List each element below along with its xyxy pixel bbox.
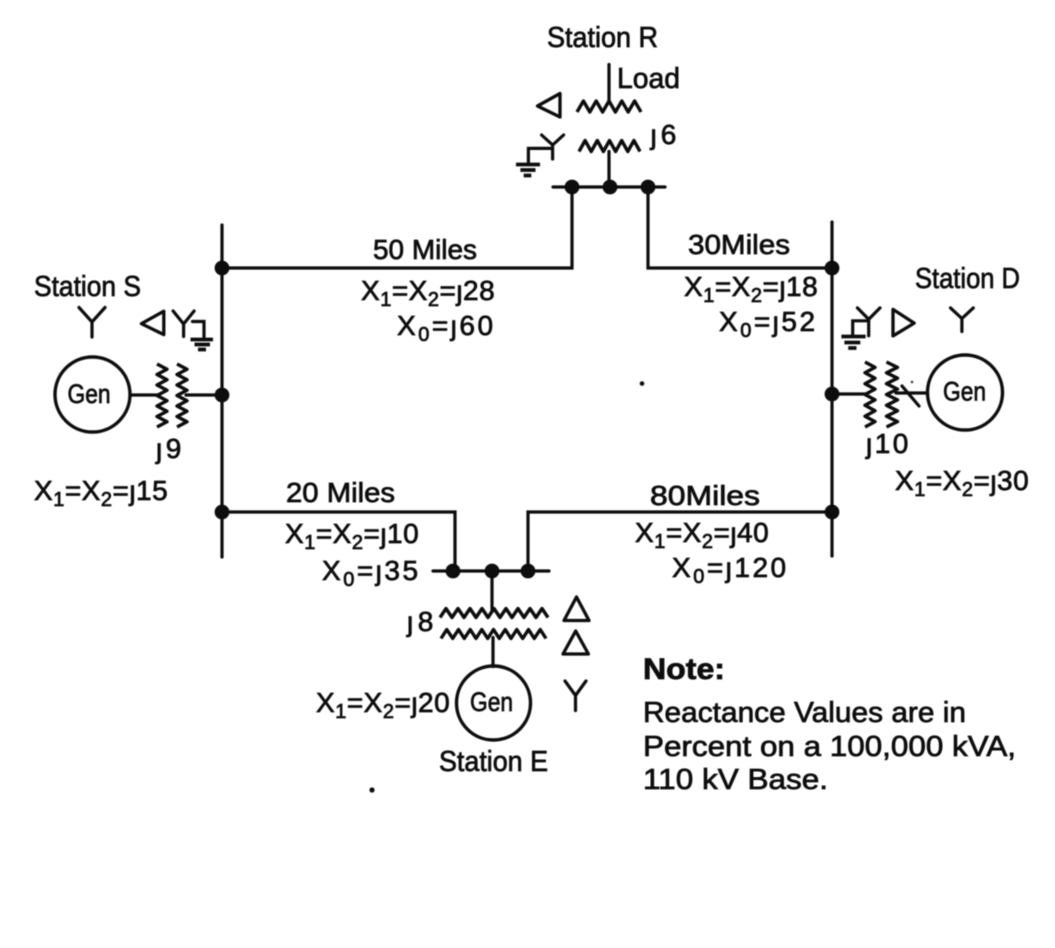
transformer T-D winding 1 (865, 362, 875, 427)
svg-text:ȷ6: ȷ6 (650, 119, 681, 150)
speck near slash (911, 381, 914, 384)
junction bus R left (565, 180, 580, 195)
transformer T-S winding 2 (177, 364, 187, 427)
delta symbol (T-E secondary) (563, 631, 588, 654)
svg-text:Percent on a 100,000 kVA,: Percent on a 100,000 kVA, (643, 731, 1016, 763)
wire T-D to Gen D (896, 391, 927, 394)
junction bus E center (485, 564, 500, 579)
junction bus D mid (825, 387, 840, 402)
transformer T-E winding 2 (441, 630, 546, 639)
wire T-S to bus S (186, 393, 222, 396)
junction bus R right (641, 180, 656, 195)
stray slash mark (902, 386, 919, 406)
svg-text:Station E: Station E (439, 746, 548, 778)
svg-text:Station D: Station D (915, 263, 1020, 295)
svg-text:Note:: Note: (643, 653, 725, 686)
speck center (640, 381, 645, 386)
svg-text:ȷ9: ȷ9 (155, 433, 185, 464)
svg-text:Reactance Values are in: Reactance Values are in (643, 697, 966, 729)
svg-text:20 Miles: 20 Miles (286, 477, 395, 508)
svg-text:110 kV Base.: 110 kV Base. (643, 764, 828, 796)
transformer T-D winding 2 (887, 362, 898, 427)
line 80 Miles wire (528, 512, 832, 571)
bus R (553, 185, 665, 188)
generator Gen D circle (928, 355, 1003, 430)
bus E (433, 569, 549, 572)
wye symbol grounded (T-S secondary) (173, 311, 194, 337)
bus D (830, 222, 833, 556)
svg-text:30Miles: 30Miles (688, 229, 790, 260)
junction bus E right (521, 564, 536, 579)
load lead wire (607, 65, 610, 103)
svg-text:80Miles: 80Miles (650, 480, 760, 511)
junction bus S mid (215, 388, 230, 403)
junction bus S bottom (215, 505, 230, 520)
junction bus D top (825, 261, 840, 276)
svg-text:X0=ȷ120: X0=ȷ120 (672, 552, 789, 588)
speck bottom-left (369, 787, 374, 792)
line 30 Miles wire (648, 187, 832, 268)
junction bus E left (446, 564, 461, 579)
svg-text:50 Miles: 50 Miles (373, 234, 477, 265)
line 20 Miles wire (222, 512, 455, 571)
ground S (191, 338, 214, 342)
ground S bracket (193, 322, 205, 338)
svg-text:X0=ȷ35: X0=ȷ35 (322, 555, 421, 591)
delta symbol (T-S primary) (141, 311, 163, 334)
generator Gen S circle (55, 357, 130, 432)
svg-text:X0=ȷ52: X0=ȷ52 (719, 306, 818, 342)
wye symbol grounded (T-D primary) (857, 308, 880, 336)
delta symbol (T-R primary) (538, 94, 561, 118)
ground R bracket (528, 148, 551, 162)
wye symbol (Gen E) (565, 681, 586, 711)
ground R (516, 163, 540, 167)
transformer T-E winding 1 (440, 609, 548, 618)
junction bus D bottom (825, 505, 840, 520)
ground D (841, 335, 865, 339)
generator Gen E circle (457, 666, 531, 740)
transformer T-R winding 2 (579, 141, 640, 152)
svg-text:Load: Load (617, 63, 680, 95)
svg-text:Station S: Station S (34, 271, 141, 303)
wye symbol (Gen D) (951, 308, 974, 332)
svg-text:Station R: Station R (547, 22, 658, 54)
line 50 Miles wire (222, 187, 572, 268)
wire bus D to T-D (832, 392, 866, 395)
wire Gen S to T-S (130, 393, 158, 396)
bus S (220, 225, 223, 557)
transformer T-S winding 1 (157, 364, 167, 427)
wire T-E to Gen E (491, 638, 494, 667)
wire T-R to bus R (607, 152, 610, 188)
svg-text:Gen: Gen (943, 377, 986, 407)
svg-text:Gen: Gen (68, 379, 111, 409)
wye symbol (Gen S) (79, 308, 105, 338)
svg-text:X0=ȷ60: X0=ȷ60 (397, 310, 496, 346)
svg-text:Gen: Gen (470, 687, 513, 717)
delta symbol (T-E primary) (564, 597, 589, 621)
svg-text:ȷ8: ȷ8 (406, 606, 438, 637)
wire bus E to T-E (490, 571, 493, 610)
transformer T-R winding 1 (577, 101, 641, 112)
wye symbol grounded (T-R secondary) (542, 135, 564, 159)
delta symbol (T-D secondary) (893, 309, 914, 336)
ground D bracket (853, 321, 867, 334)
junction bus S top (215, 261, 230, 276)
junction bus R center (603, 180, 618, 195)
svg-text:ȷ10: ȷ10 (865, 428, 911, 459)
